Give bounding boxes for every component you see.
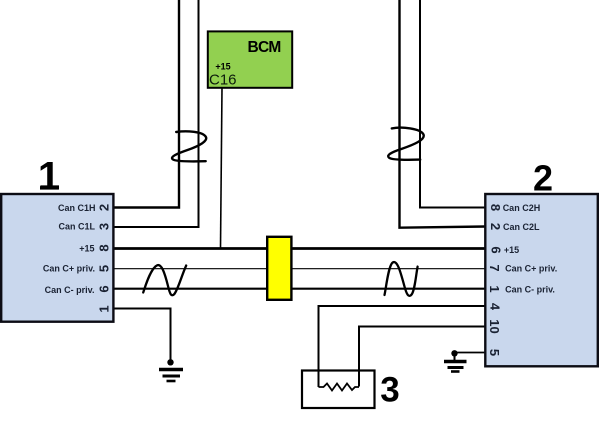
ground right symbol: [444, 353, 467, 371]
wire module 1 pin 1 to ground: [114, 309, 171, 362]
svg-text:10: 10: [487, 319, 502, 333]
wire BCM C16 to +15 net: [221, 88, 223, 248]
wire Can C2H vertical+horizontal to module 2 pin 8: [420, 0, 486, 208]
svg-text:1: 1: [38, 155, 60, 199]
svg-text:1: 1: [97, 305, 112, 312]
wire module 2 pin 5 to ground: [455, 352, 486, 354]
module 1 connector body: [1, 194, 113, 322]
module 2 pin labels: [503, 203, 558, 295]
wire module 2 pin 10 to resistor box: [359, 327, 486, 387]
svg-text:+15: +15: [215, 62, 230, 72]
wire Can C- priv. net: [114, 288, 486, 290]
wire module 2 pin 4 to resistor box: [319, 306, 486, 387]
svg-text:5: 5: [487, 349, 502, 356]
svg-text:Can C- priv.: Can C- priv.: [45, 285, 95, 295]
resistor R zigzag: [319, 384, 360, 391]
svg-text:2: 2: [97, 204, 112, 211]
module 2 pin numbers: [487, 204, 504, 356]
wire Can C1H vertical+horizontal to module 1 pin 2: [114, 0, 180, 208]
svg-text:6: 6: [97, 285, 112, 292]
wire Can C+ priv. net: [114, 268, 486, 270]
svg-text:4: 4: [488, 303, 503, 311]
module 2 connector body: [485, 194, 598, 366]
module 1 pin labels: [43, 203, 96, 295]
ground right junction dot: [451, 350, 457, 356]
svg-text:5: 5: [97, 265, 112, 272]
svg-text:7: 7: [487, 264, 502, 271]
resistor box 3 body: [302, 371, 375, 409]
svg-text:Can C1L: Can C1L: [58, 222, 95, 232]
module 1 pin numbers: [97, 204, 112, 313]
svg-text:8: 8: [97, 244, 112, 251]
svg-text:Can C+ priv.: Can C+ priv.: [505, 263, 557, 273]
svg-text:Can C2L: Can C2L: [503, 222, 540, 232]
splice connector (yellow): [267, 237, 291, 300]
sine break mark right on priv. pair: [385, 262, 418, 296]
svg-text:Can C- priv.: Can C- priv.: [505, 285, 555, 295]
svg-text:Can C2H: Can C2H: [503, 203, 541, 213]
svg-text:3: 3: [380, 370, 399, 409]
twisted-pair mark left: [172, 131, 206, 161]
sine break mark left on priv. pair: [143, 265, 186, 295]
svg-text:2: 2: [533, 158, 553, 199]
BCM module body: [208, 31, 292, 87]
svg-text:8: 8: [488, 204, 503, 211]
twisted-pair mark right: [388, 128, 424, 160]
svg-text:Can C1H: Can C1H: [58, 203, 96, 213]
wire +15 net from module 1 pin 8 to module 2 pin 6: [114, 247, 486, 250]
svg-text:1: 1: [487, 285, 502, 292]
ground left symbol: [159, 370, 183, 382]
svg-text:+15: +15: [79, 243, 94, 253]
svg-text:+15: +15: [504, 245, 519, 255]
svg-text:6: 6: [489, 246, 504, 253]
svg-text:C16: C16: [209, 71, 237, 88]
svg-text:2: 2: [488, 223, 503, 230]
svg-text:Can C+ priv.: Can C+ priv.: [43, 263, 95, 273]
wire Can C1L vertical+horizontal to module 1 pin 3: [114, 0, 199, 227]
svg-text:3: 3: [97, 223, 112, 230]
wire Can C2L vertical+horizontal to module 2 pin 2: [400, 0, 486, 228]
ground left junction dot: [167, 359, 173, 365]
svg-text:BCM: BCM: [248, 39, 281, 56]
